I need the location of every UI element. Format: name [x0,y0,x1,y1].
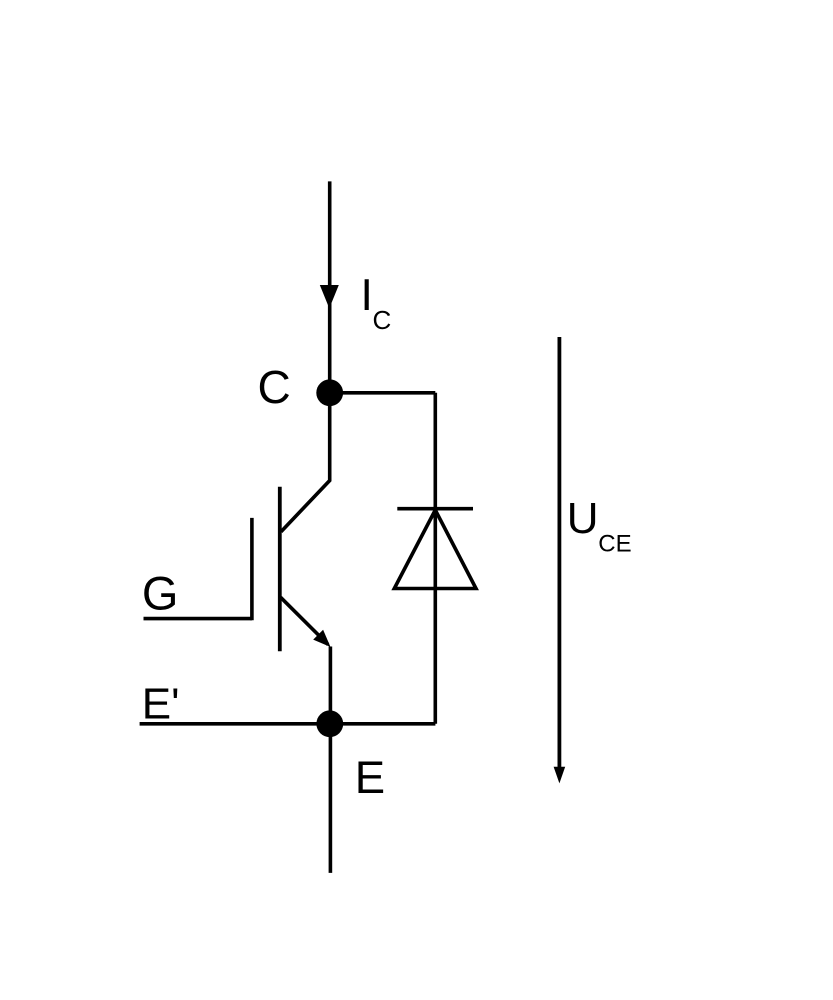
node E junction dot [316,710,343,737]
diode D1 triangle (anode, pointing up) [394,510,476,589]
wire: E' horizontal rail [140,722,436,726]
svg-text:E': E' [142,679,180,728]
transistor Q1 IGBT emitter diagonal [281,597,328,644]
transistor Q1 IGBT collector lead [281,393,330,532]
arrowhead: Uce arrow [554,767,566,784]
wire: node C to diode branch [330,391,436,395]
wire: diode vertical lead (cathode side and through) [433,393,437,724]
arrow: Uce voltage reference line [558,337,562,768]
svg-text:E: E [355,752,385,803]
arrowhead: Ic current direction [320,285,339,308]
wire: gate lead [144,617,252,621]
arrowhead: emitter arrow [313,630,330,647]
svg-text:I: I [361,271,373,320]
node C junction dot [316,379,343,406]
transistor Q1 IGBT gate bar [250,518,254,620]
wire: bottom emitter lead [329,724,333,873]
svg-text:C: C [258,361,291,413]
wire: emitter vertical lead [329,647,333,724]
transistor Q1 IGBT body bar [278,487,282,652]
diode D1 cathode bar [397,507,473,511]
svg-text:G: G [142,567,179,620]
wire: top collector lead [328,181,332,392]
svg-text:CE: CE [598,530,631,557]
svg-text:U: U [567,494,599,543]
svg-text:C: C [373,305,392,335]
